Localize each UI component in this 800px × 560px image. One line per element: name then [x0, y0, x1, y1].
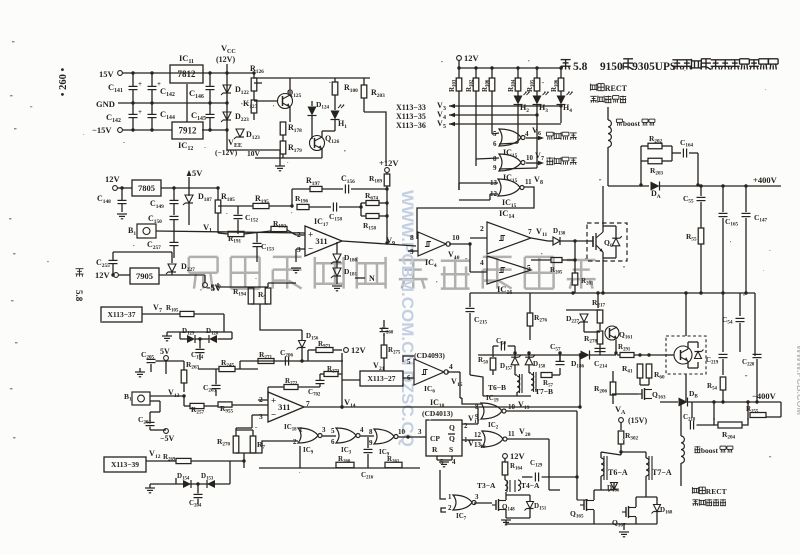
svg-text:T3−A: T3−A [477, 481, 496, 490]
svg-text:7912: 7912 [179, 126, 198, 136]
svg-text:CP: CP [430, 434, 440, 443]
svg-text:A: A [621, 410, 626, 416]
svg-text:10: 10 [454, 255, 460, 261]
svg-text:R: R [432, 445, 438, 454]
svg-text:12V: 12V [351, 345, 367, 355]
svg-text:−400V: −400V [752, 391, 777, 401]
svg-text:4: 4 [443, 115, 446, 121]
svg-text:2: 2 [448, 504, 452, 512]
svg-text:13: 13 [474, 441, 482, 449]
svg-text:311: 311 [315, 236, 327, 246]
svg-text:GND: GND [96, 99, 115, 109]
svg-text:(CD4093): (CD4093) [414, 351, 445, 360]
svg-text:RECT: RECT [706, 487, 727, 496]
svg-text:4: 4 [449, 362, 453, 371]
svg-text:7905: 7905 [136, 271, 153, 281]
svg-text:4: 4 [360, 426, 364, 434]
svg-text:5: 5 [331, 427, 335, 435]
svg-text:T4−A: T4−A [521, 481, 540, 490]
svg-text:+: + [157, 80, 161, 88]
svg-text:−: − [271, 409, 276, 419]
svg-text:3: 3 [259, 412, 263, 421]
svg-text:9150: 9150 [600, 61, 623, 73]
svg-text:+400V: +400V [753, 175, 778, 185]
svg-text:5.8: 5.8 [74, 290, 84, 302]
svg-text:9: 9 [392, 241, 395, 247]
svg-text:7812: 7812 [178, 69, 197, 79]
svg-text:19: 19 [524, 405, 530, 411]
svg-text:7: 7 [159, 308, 162, 314]
svg-text:X113−33: X113−33 [396, 103, 426, 112]
svg-text:+: + [138, 80, 142, 88]
svg-text:2: 2 [293, 438, 297, 446]
svg-text:+: + [271, 396, 276, 406]
svg-text:5: 5 [527, 263, 531, 272]
svg-text:12V: 12V [464, 53, 480, 63]
svg-text:7: 7 [541, 156, 544, 162]
svg-text:1: 1 [448, 493, 452, 501]
svg-text:S: S [449, 445, 453, 454]
svg-text:X113−39: X113−39 [111, 460, 139, 469]
svg-text:boost: boost [623, 119, 641, 128]
svg-text:RECT: RECT [605, 84, 628, 93]
svg-text:1: 1 [209, 228, 212, 234]
svg-text:(15V): (15V) [628, 416, 647, 425]
svg-text:12V: 12V [105, 174, 121, 184]
svg-text:2: 2 [480, 224, 484, 233]
svg-text:311: 311 [278, 402, 290, 412]
svg-text:3: 3 [322, 426, 326, 434]
svg-text:• 260 •: • 260 • [58, 68, 69, 97]
svg-text:+: + [138, 108, 142, 116]
svg-text:X113−35: X113−35 [396, 112, 426, 121]
svg-text:X113−37: X113−37 [107, 310, 135, 319]
svg-text:Q: Q [449, 434, 455, 443]
svg-text:6: 6 [493, 140, 497, 148]
svg-text:−15V: −15V [92, 125, 112, 135]
svg-text:8: 8 [493, 155, 497, 163]
svg-text:X113−36: X113−36 [396, 121, 426, 130]
svg-text:T6−A: T6−A [608, 468, 628, 477]
svg-text:10: 10 [526, 154, 534, 162]
svg-text:20: 20 [525, 432, 531, 438]
svg-text:5: 5 [407, 358, 411, 366]
svg-text:9: 9 [493, 164, 497, 172]
svg-text:boost: boost [701, 446, 719, 455]
svg-text:12: 12 [474, 431, 482, 439]
svg-text:9: 9 [369, 439, 373, 447]
svg-text:11: 11 [508, 430, 515, 438]
svg-text:14: 14 [350, 403, 356, 409]
svg-text:2: 2 [464, 422, 468, 430]
svg-text:X113−27: X113−27 [367, 374, 395, 383]
svg-text:5: 5 [443, 124, 446, 130]
svg-text:10: 10 [398, 428, 406, 436]
svg-text:5.8: 5.8 [573, 61, 588, 73]
svg-text:10: 10 [452, 233, 460, 242]
svg-text:7805: 7805 [138, 183, 155, 193]
svg-text:WWW.PCBM.COM.CN DZSC.CQ: WWW.PCBM.COM.CN DZSC.CQ [398, 190, 417, 447]
svg-text:5V: 5V [192, 168, 203, 178]
svg-text:8: 8 [540, 180, 543, 186]
svg-text:8: 8 [410, 233, 414, 242]
svg-text:15V: 15V [99, 69, 115, 79]
svg-text:(12V): (12V) [216, 55, 235, 64]
svg-text:−5V: −5V [160, 434, 175, 443]
svg-text:3: 3 [418, 428, 422, 436]
svg-text:T7−B: T7−B [535, 387, 553, 396]
svg-text:N: N [369, 274, 375, 283]
svg-text:12V: 12V [95, 270, 111, 280]
svg-text:+: + [308, 230, 313, 240]
svg-text:T7−A: T7−A [652, 468, 672, 477]
svg-text:+12V: +12V [379, 158, 399, 168]
svg-text:6: 6 [331, 438, 335, 446]
svg-text:5V: 5V [160, 347, 170, 356]
svg-text:9305UPS: 9305UPS [632, 61, 676, 73]
svg-text:11: 11 [525, 178, 532, 186]
svg-text:(CD4013): (CD4013) [422, 409, 453, 418]
svg-text:−: − [308, 243, 313, 253]
svg-text:7: 7 [528, 227, 532, 236]
svg-text:T6−B: T6−B [488, 383, 506, 392]
svg-text:8: 8 [369, 428, 373, 436]
svg-text:WWW.PCB.COM: WWW.PCB.COM [795, 345, 800, 415]
svg-text:3: 3 [443, 106, 446, 112]
svg-text:4: 4 [525, 130, 529, 138]
svg-text:10: 10 [508, 403, 516, 411]
svg-text:12: 12 [155, 454, 161, 460]
svg-text:12V: 12V [510, 451, 526, 461]
svg-text:4: 4 [480, 258, 484, 267]
svg-text:11: 11 [542, 232, 547, 238]
svg-text:3: 3 [475, 493, 479, 501]
svg-text:Q: Q [449, 423, 455, 432]
